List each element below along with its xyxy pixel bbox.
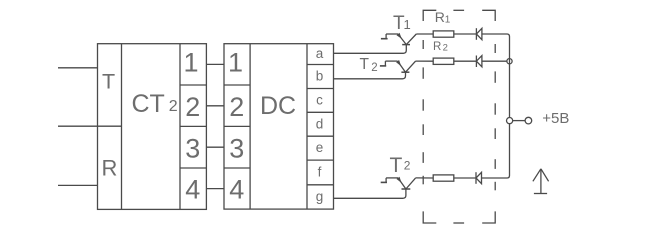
junction node +5V tap — [507, 118, 513, 124]
wire T2 collector — [416, 60, 434, 62]
junction node diode b / bus — [507, 59, 512, 64]
svg-text:e: e — [316, 140, 324, 155]
wire segment g to T3 emitter — [334, 189, 406, 198]
wire R2 to diode b — [454, 60, 477, 62]
wire T3 collector — [416, 177, 434, 179]
resistor R3 — [433, 175, 454, 181]
svg-text:DC: DC — [260, 92, 296, 120]
wire input T — [58, 67, 98, 69]
wire CT2.4 to DC.4 — [206, 188, 224, 190]
decoder input labels 1 2 3 4 — [228, 47, 244, 204]
wire segment a to T1 emitter — [334, 45, 407, 54]
LED segment a diode — [476, 28, 482, 40]
svg-text:R: R — [102, 155, 118, 180]
svg-text:f: f — [318, 165, 322, 180]
svg-text:1: 1 — [445, 14, 451, 25]
wire input R — [58, 184, 98, 186]
transistor T2 — [380, 60, 416, 72]
svg-text:+5В: +5В — [542, 110, 569, 127]
svg-text:2: 2 — [169, 98, 178, 115]
svg-text:1: 1 — [228, 47, 243, 77]
counter output labels 1 2 3 4 — [183, 47, 200, 204]
svg-text:1: 1 — [183, 47, 198, 77]
counter CT2 outline — [98, 44, 207, 210]
svg-text:b: b — [316, 69, 324, 84]
svg-text:CT: CT — [132, 90, 165, 118]
segment output labels a-g — [316, 46, 324, 204]
svg-text:a: a — [316, 46, 324, 61]
svg-text:2: 2 — [404, 159, 411, 173]
display dashed box — [423, 10, 495, 223]
label T3 — [390, 154, 411, 177]
wire diode g to +5V bus — [482, 176, 510, 179]
svg-text:4: 4 — [229, 175, 244, 205]
+5V bus vertical wire — [509, 37, 511, 176]
wire R1 to diode a — [454, 33, 477, 35]
svg-text:2: 2 — [371, 62, 377, 74]
resistor R2 — [433, 58, 454, 64]
svg-text:T: T — [360, 56, 370, 73]
transistor T3 — [381, 177, 416, 189]
svg-text:2: 2 — [185, 92, 200, 122]
wire +5V tap to terminal — [513, 120, 526, 122]
svg-text:c: c — [316, 92, 323, 107]
label CT2 — [132, 90, 178, 118]
common anode arrow symbol — [533, 169, 549, 194]
decoder DC outline — [224, 44, 334, 209]
wire R3 to diode g — [454, 177, 476, 179]
terminal +5V — [525, 117, 532, 124]
decoder DC internal dividers — [224, 44, 334, 209]
wire CT2.3 to DC.3 — [206, 146, 224, 148]
wire CT2.2 to DC.2 — [206, 105, 224, 107]
LED segment b diode — [476, 56, 482, 68]
svg-text:R: R — [435, 9, 445, 25]
wire diode b to +5V bus — [482, 60, 507, 62]
wire diode a to +5V bus — [482, 34, 510, 37]
wire CT2.1 to DC.1 — [206, 63, 224, 65]
LED segment g diode — [476, 172, 482, 184]
wire segment b to T2 emitter — [334, 72, 406, 79]
counter CT2 internal dividers — [122, 44, 207, 210]
wire T1 collector — [416, 33, 433, 35]
label R1 — [435, 9, 451, 25]
label T2 — [360, 56, 378, 74]
svg-text:R: R — [433, 41, 441, 53]
label T1 — [393, 13, 411, 34]
transistor T1 — [381, 33, 416, 45]
svg-text:3: 3 — [229, 133, 244, 163]
svg-text:g: g — [316, 189, 324, 204]
svg-text:3: 3 — [185, 133, 200, 163]
svg-text:2: 2 — [229, 92, 244, 122]
wire input middle / T-R divider — [58, 125, 122, 127]
svg-text:2: 2 — [443, 43, 448, 54]
svg-text:1: 1 — [404, 17, 411, 32]
svg-text:d: d — [316, 116, 324, 131]
label R2 — [433, 41, 448, 53]
svg-text:T: T — [102, 70, 115, 94]
svg-text:T: T — [390, 154, 403, 177]
resistor R1 — [433, 31, 454, 37]
svg-text:4: 4 — [185, 175, 200, 205]
